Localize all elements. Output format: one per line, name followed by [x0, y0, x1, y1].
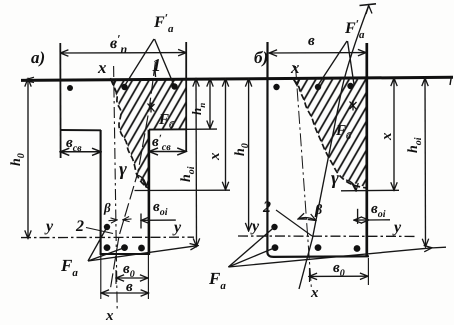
F'a tent pointer lines b: [318, 41, 348, 86]
beta tiny arrows a: [109, 219, 118, 222]
rebar dots top b: [273, 84, 279, 90]
svg-text:y: y: [44, 218, 54, 235]
arrow at left end of top line: [24, 77, 35, 82]
compression zone boundary curve (line 1): [111, 80, 149, 189]
gamma angle arc b: [346, 180, 356, 191]
beta arc b: [298, 218, 316, 221]
x axis b dash-dot: [296, 66, 312, 290]
rebar dots bottom a: [104, 224, 110, 230]
extension lines bottom a: [100, 255, 102, 299]
gamma angle arc a: [137, 175, 146, 187]
dim b width top: [269, 52, 366, 54]
F_a fan a: [88, 227, 107, 261]
F_a fan b: [228, 227, 274, 267]
dim box b'_sv (right overhang): [149, 151, 186, 153]
right overhang bottom a: [149, 128, 186, 130]
dim b_oi a: [141, 219, 176, 221]
svg-text:y: y: [392, 219, 402, 236]
section right edge b: [365, 43, 368, 257]
svg-text:β: β: [314, 203, 323, 218]
x axis a (vertical dash-dot): [114, 66, 118, 311]
dim h_oi a: [195, 79, 198, 247]
gamma horizontal reference a: [135, 189, 231, 191]
svg-text:x: x: [207, 152, 223, 161]
rebar dots top a: [67, 85, 73, 91]
rebar dots bottom b: [271, 224, 277, 230]
nu line b with top bar: [299, 6, 369, 289]
dim b a: [101, 292, 149, 294]
dim box b_sv (left overhang): [60, 151, 101, 153]
svg-text:β: β: [103, 200, 111, 215]
star b: [350, 101, 357, 111]
dim b_o b: [309, 275, 368, 277]
svg-text:x: x: [290, 58, 300, 77]
compression boundary curve b: [293, 79, 367, 189]
dim b_oi b: [354, 219, 369, 221]
F'a tent pointer lines a: [125, 39, 155, 86]
dim h_0 b: [248, 79, 250, 232]
web left edge a: [100, 130, 102, 255]
svg-text:x: x: [310, 285, 319, 301]
flange right edge a: [185, 42, 187, 152]
hatched compression zone a: [111, 79, 186, 188]
star (centroid of compressed zone) a: [148, 103, 155, 113]
svg-text:x: x: [105, 308, 114, 324]
svg-text:y: y: [172, 219, 182, 236]
small arrow on x axis b: [293, 79, 300, 86]
svg-text:1: 1: [152, 55, 161, 75]
section left edge b (with rounded bottom corner): [267, 42, 369, 257]
h_p bottom reference line: [186, 128, 217, 130]
svg-text:x: x: [97, 58, 107, 77]
web bottom a: [100, 253, 150, 255]
dim h_oi b: [424, 78, 427, 247]
dim h_0 a (left): [27, 79, 29, 239]
svg-text:в: в: [308, 33, 315, 49]
y axis b dash-dot: [238, 235, 417, 237]
y axis a dash-dot: [21, 236, 194, 238]
2 pointer b: [276, 210, 312, 236]
2 pointer a: [86, 228, 113, 234]
svg-text:γ: γ: [119, 159, 127, 180]
svg-text:y: y: [250, 218, 260, 235]
dim x a: [225, 79, 227, 190]
top chord line (common to both sections): [21, 77, 453, 80]
hatched compression zone b: [293, 78, 367, 188]
web right edge a: [148, 130, 151, 255]
svg-text:б): б): [254, 48, 268, 67]
dimension b'p (flange width): [60, 52, 186, 54]
svg-text:2: 2: [262, 199, 271, 216]
dim b_o a: [116, 277, 148, 279]
dim x b: [393, 78, 395, 190]
dim h_p a: [209, 79, 211, 129]
small arrow on x axis a: [111, 78, 117, 85]
left overhang bottom a: [60, 129, 101, 131]
gamma horizontal reference b: [341, 189, 399, 192]
svg-text:а): а): [31, 48, 45, 67]
flange left edge a: [59, 43, 61, 158]
svg-text:x: x: [379, 132, 395, 141]
svg-text:2: 2: [75, 218, 84, 235]
svg-text:в: в: [126, 279, 133, 295]
svg-text:γ: γ: [331, 168, 339, 189]
nu line a (from 1 through star down): [111, 62, 156, 288]
